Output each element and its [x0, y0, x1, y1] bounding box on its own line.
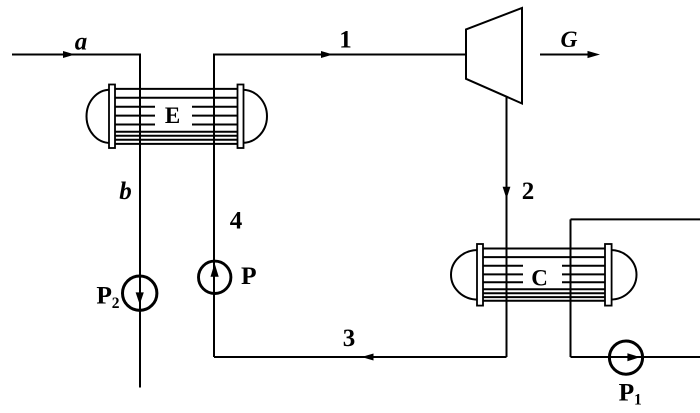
C tube 3 (broken for label) — [480, 273, 609, 275]
wire 4 (riser from line 3 up through pump P to line 1) — [213, 54, 215, 358]
E tube 4 (broken for label) — [112, 124, 241, 126]
E right tube sheet — [238, 85, 244, 149]
svg-text:P: P — [96, 281, 112, 310]
wire b (left vertical through E down to bottom) — [139, 54, 141, 388]
wire 1 (horizontal to turbine inlet) — [214, 54, 466, 56]
arrowhead on wire a — [63, 51, 75, 58]
C right tube sheet — [605, 244, 612, 306]
C right cap — [611, 250, 637, 300]
pump P1 — [609, 341, 642, 374]
wire cooling-out through pump P1 to right edge — [571, 356, 700, 358]
E right cap — [243, 90, 267, 143]
E tube 5 — [112, 131, 241, 133]
wire cooling vertical through C — [570, 219, 572, 357]
E tube 7 — [112, 139, 241, 141]
turbine — [466, 8, 522, 104]
wire G (turbine outlet shaft arrow line) — [540, 54, 593, 56]
C shell bottom — [480, 300, 609, 302]
svg-text:b: b — [119, 178, 132, 205]
C tube 6 — [480, 292, 609, 294]
svg-text:1: 1 — [634, 391, 642, 408]
svg-text:2: 2 — [112, 295, 120, 312]
wire a (feed inlet, top-left horizontal) — [12, 54, 140, 56]
svg-text:1: 1 — [339, 26, 352, 53]
svg-text:a: a — [75, 29, 88, 56]
heat exchanger E — [87, 85, 267, 149]
arrowhead on wire G — [588, 51, 601, 58]
svg-text:P: P — [241, 261, 257, 290]
svg-text:3: 3 — [343, 325, 356, 352]
C tube 2 (broken for label) — [480, 265, 609, 267]
arrowhead on wire 1 — [321, 51, 333, 58]
condenser C — [451, 244, 636, 306]
C shell top — [480, 248, 609, 250]
arrowhead on wire 2 — [503, 187, 511, 199]
wire cooling-in (top-right horizontal) — [571, 218, 700, 220]
svg-text:P: P — [619, 378, 635, 407]
E tube 6 — [112, 135, 241, 137]
E shell top — [112, 88, 241, 90]
E tube 2 (broken for label) — [112, 106, 241, 108]
wire 2 (turbine exhaust vertical down through condenser C) — [506, 97, 508, 357]
C tube 4 (broken for label) — [480, 281, 609, 283]
svg-text:4: 4 — [230, 208, 243, 235]
pump P — [199, 261, 231, 293]
svg-text:G: G — [561, 27, 578, 53]
C tube 1 — [480, 256, 609, 258]
wire 3 (bottom horizontal from C to riser) — [214, 356, 507, 358]
arrowhead on wire 3 — [362, 354, 374, 361]
C tube 7 — [480, 296, 609, 298]
svg-text:2: 2 — [522, 178, 535, 205]
E shell bottom — [112, 143, 241, 145]
svg-text:C: C — [531, 266, 548, 291]
C left tube sheet — [477, 244, 483, 306]
E tube 1 — [112, 97, 241, 99]
E left tube sheet — [109, 85, 115, 149]
C left cap — [451, 250, 478, 300]
E left cap — [87, 90, 110, 143]
svg-text:E: E — [165, 103, 180, 128]
C tube 5 — [480, 288, 609, 290]
E tube 3 (broken for label) — [112, 115, 241, 117]
pump P2 — [123, 276, 157, 310]
